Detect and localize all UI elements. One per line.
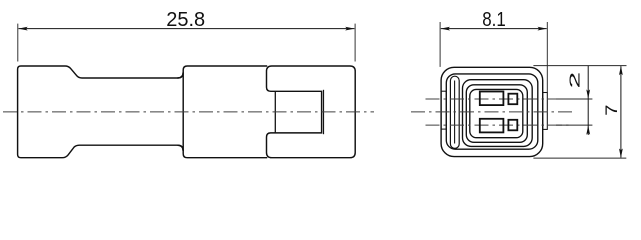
arrow right 8.1 xyxy=(538,27,547,31)
dimension 2 extension line upper xyxy=(556,98,592,100)
housing outer rounded rect xyxy=(441,67,543,156)
terminal slot upper square xyxy=(508,94,517,105)
row centerline lower xyxy=(426,124,571,126)
side view: left block and neck outline xyxy=(18,66,184,158)
latch rail outer xyxy=(450,76,459,148)
dimension 25.8 extension line right xyxy=(354,24,356,62)
cavity floor edge xyxy=(274,92,276,133)
dimension 7 line xyxy=(620,66,622,157)
terminal back edge (doubled line) xyxy=(323,90,325,134)
dimension 2 extension line lower xyxy=(556,124,592,126)
side view: rear hood with cavity mouth xyxy=(267,66,356,158)
arrow up 2 (tip at lower ext) xyxy=(586,125,590,134)
terminal slot lower square xyxy=(508,120,517,131)
dimension 25.8 extension line left xyxy=(17,24,19,62)
terminal slot lower wide xyxy=(480,119,504,133)
arrow left 25.8 xyxy=(18,27,27,31)
row centerline upper xyxy=(426,98,571,100)
neck-to-head fillet bottom xyxy=(177,145,183,151)
side view: front head block xyxy=(183,66,267,158)
svg-text:7: 7 xyxy=(602,105,621,116)
arrow right 25.8 xyxy=(345,27,354,31)
arrow bottom 7 xyxy=(619,149,623,158)
svg-text:25.8: 25.8 xyxy=(166,9,205,31)
dimension 8.1 extension line left xyxy=(439,22,441,67)
housing 2nd rect xyxy=(446,74,538,149)
right tab xyxy=(543,93,548,130)
main centerline right view xyxy=(411,111,574,113)
dimension 7 extension line bottom xyxy=(533,157,626,159)
arrow top 7 xyxy=(619,66,623,75)
dimension 8.1 line xyxy=(441,28,547,30)
dimension 25.8 line xyxy=(19,28,355,30)
latch rail inner xyxy=(454,81,456,144)
arrow left 8.1 xyxy=(441,27,450,31)
centerline of side view xyxy=(3,111,374,113)
dimension 8.1 extension line right xyxy=(546,22,548,93)
shroud 5th rect xyxy=(470,89,523,137)
shroud 3rd rect xyxy=(463,80,533,147)
neck-to-head fillet top xyxy=(177,72,183,78)
shroud 4th rect xyxy=(466,85,527,143)
dimension 7 extension line top xyxy=(533,65,626,67)
arrow down 2 (tip at upper ext) xyxy=(586,89,590,98)
terminal slot upper wide xyxy=(480,92,504,106)
svg-text:8.1: 8.1 xyxy=(482,9,506,31)
svg-text:2: 2 xyxy=(567,72,583,89)
dimension 2 line xyxy=(587,66,589,135)
left tab xyxy=(441,91,446,129)
